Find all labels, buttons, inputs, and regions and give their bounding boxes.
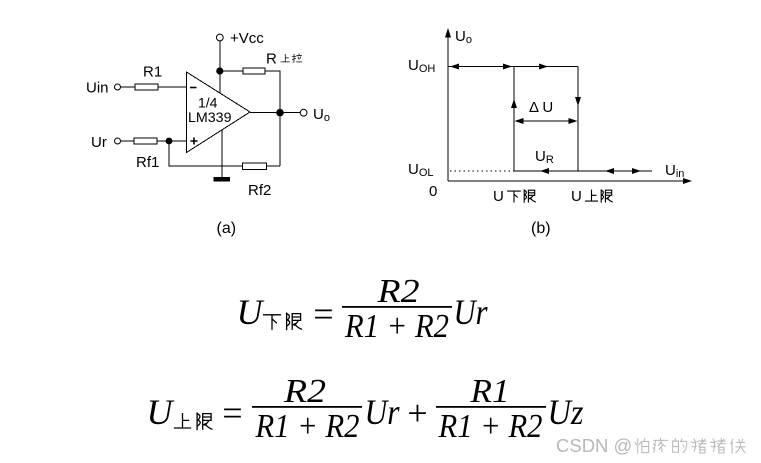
svg-text:Ur: Ur xyxy=(454,292,489,332)
arrowhead UOH left (at axis) xyxy=(450,64,459,70)
svg-text:Uin: Uin xyxy=(665,162,684,180)
node Uo output terminal xyxy=(300,109,307,116)
svg-text:Rf1: Rf1 xyxy=(136,154,159,171)
resistor Rf1 xyxy=(134,138,157,144)
arrowhead delta-U left xyxy=(515,118,524,124)
svg-text:U: U xyxy=(571,188,582,205)
wire R1 to inverting input xyxy=(158,86,187,88)
svg-text:Rf2: Rf2 xyxy=(248,182,271,199)
resistor Rf2 xyxy=(243,163,267,170)
svg-text:R2: R2 xyxy=(376,273,419,310)
svg-text:R1 + R2: R1 + R2 xyxy=(255,408,360,445)
line UOL solid xyxy=(514,170,652,172)
line UOL dotted xyxy=(450,170,514,172)
svg-text:UR: UR xyxy=(535,148,554,166)
svg-text:=: = xyxy=(311,294,335,334)
wire Ur terminal to Rf1 xyxy=(121,140,135,142)
formula2 fraction bar 1 xyxy=(252,406,362,408)
wire + junction down and feedback to Rf2 xyxy=(169,141,243,166)
wire Vcc junction to pullup resistor xyxy=(220,70,243,72)
arrowhead delta-U right xyxy=(569,118,578,124)
arrowhead down on upper threshold vertical xyxy=(575,97,581,106)
watermark 怕疼的猪猪侠 xyxy=(635,438,745,453)
svg-text:U: U xyxy=(237,292,265,332)
wire Uin terminal to R1 xyxy=(121,86,136,88)
wire Rf1 to junction xyxy=(157,140,187,142)
op-amp plus input mark xyxy=(191,138,198,145)
svg-text:LM339: LM339 xyxy=(188,109,232,125)
svg-text:+: + xyxy=(405,393,429,433)
svg-text:R1: R1 xyxy=(143,64,162,81)
wire op-amp output to Uo terminal xyxy=(250,112,300,114)
resistor R_pullup xyxy=(243,68,265,74)
y axis Uo xyxy=(447,32,449,181)
svg-text:UOH: UOH xyxy=(408,57,435,75)
line UOH level xyxy=(448,66,578,68)
wire U上限 vertical transition xyxy=(577,67,579,172)
wire Vcc down to op-amp power pin xyxy=(219,41,221,94)
node Uin input terminal xyxy=(115,84,121,90)
wire pullup to output vertical xyxy=(265,71,280,166)
svg-text:R1 + R2: R1 + R2 xyxy=(344,308,449,345)
junction output node xyxy=(276,109,284,117)
arrowhead UOL leftward xyxy=(540,168,549,174)
arrowhead UOH mid-right (between thresholds) xyxy=(539,64,548,70)
svg-text:+Vcc: +Vcc xyxy=(230,30,264,47)
formula1 subscript 下限 xyxy=(264,313,302,329)
formula2 subscript 上限 xyxy=(175,413,212,429)
wire ground stub xyxy=(221,130,223,177)
node Ur input terminal xyxy=(115,138,121,144)
junction Vcc/pullup xyxy=(216,67,223,74)
arrowhead UOL double-arrow right xyxy=(632,168,641,174)
wire U下限 vertical transition xyxy=(513,67,515,172)
arrow delta-U measure xyxy=(516,120,576,122)
svg-text:Ur: Ur xyxy=(365,392,401,432)
svg-text:0: 0 xyxy=(429,183,437,200)
svg-text:R1: R1 xyxy=(469,373,509,410)
arrowhead up on lower threshold vertical xyxy=(511,99,517,108)
arrowhead UOL double-arrow left xyxy=(605,168,614,174)
node +Vcc terminal xyxy=(216,34,223,41)
arrowhead y-axis up xyxy=(445,28,451,38)
op-amp U1 1/4 LM339 xyxy=(187,72,251,153)
resistor R1 xyxy=(135,84,158,90)
svg-text:Uo: Uo xyxy=(313,106,330,124)
svg-text:U: U xyxy=(493,188,504,205)
op-amp minus input mark xyxy=(190,87,197,89)
junction Ur/feedback xyxy=(166,138,173,145)
svg-text:(b): (b) xyxy=(531,220,551,237)
arrowhead UOH right (before lower threshold) xyxy=(503,64,512,70)
svg-text:Uin: Uin xyxy=(86,80,109,97)
svg-text:Δ U: Δ U xyxy=(529,99,553,116)
svg-text:Uo: Uo xyxy=(455,28,472,46)
formula1 fraction bar xyxy=(342,306,452,308)
svg-text:Uz: Uz xyxy=(548,392,584,432)
ground xyxy=(214,177,231,182)
svg-text:=: = xyxy=(220,393,244,433)
svg-text:R: R xyxy=(266,51,277,68)
arrowhead x-axis right xyxy=(683,178,692,184)
svg-text:R1 + R2: R1 + R2 xyxy=(438,408,543,445)
svg-text:(a): (a) xyxy=(217,220,237,237)
wire Rf2 to output node xyxy=(267,165,281,167)
svg-text:CSDN @: CSDN @ xyxy=(556,435,632,456)
svg-text:UOL: UOL xyxy=(408,161,434,179)
svg-text:R2: R2 xyxy=(283,373,326,410)
formula2 fraction bar 2 xyxy=(436,406,546,408)
svg-text:U: U xyxy=(147,392,175,432)
x axis Uin xyxy=(448,180,689,182)
svg-text:Ur: Ur xyxy=(91,134,107,151)
